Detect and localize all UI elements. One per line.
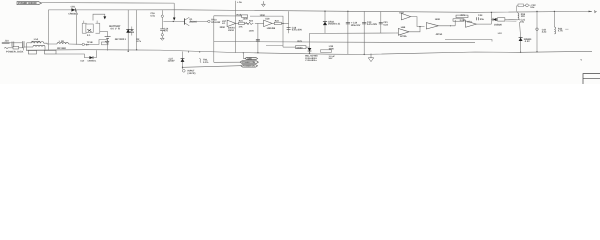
transformer T1 upper winding (27, 42, 31, 44)
wire vertical drop at x=174 (173, 3, 175, 18)
power jack switch box 2 (45, 50, 57, 54)
svg-text:U19: U19 (399, 12, 404, 15)
capacitor C20 branch x=364.2 (363, 11, 365, 54)
diode CR0003 (89, 56, 93, 59)
svg-text:0.22: 0.22 (383, 23, 388, 26)
diode CR3 body (hollow) (130, 29, 134, 32)
svg-text:POWER JACK: POWER JACK (6, 51, 24, 54)
svg-text:47K: 47K (239, 26, 243, 29)
wire jack lower line (8, 47, 13, 49)
diode CR1 on +BATT rail (71, 6, 76, 12)
svg-text:4274A: 4274A (436, 33, 443, 36)
net flag POWER CON (240, 61, 258, 64)
svg-text:287-0000: 287-0000 (57, 47, 67, 50)
diode CR20 (points left) on output row (493, 18, 497, 21)
resistor R31 2.2K (input) (453, 19, 464, 21)
svg-text:50V: 50V (329, 57, 333, 60)
wire to flag POWER CON (214, 61, 240, 63)
svg-text:1N5820: 1N5820 (494, 24, 503, 27)
svg-text:2.2K: 2.2K (460, 19, 465, 22)
inductor L1B coil (57, 43, 69, 44)
svg-text:LO: LO (222, 22, 225, 25)
lower winding to ground rail (26, 47, 45, 51)
wire Q1 base row (163, 20, 184, 22)
wire up to R31 (454, 20, 456, 26)
switch S1 body (86, 24, 93, 32)
svg-text:POWER CON: POWER CON (242, 61, 256, 64)
wire T1 to L1B (44, 42, 57, 45)
test point TP2 branch x=162.3 (161, 10, 163, 15)
junction dot output node (282, 23, 283, 24)
net flag (VR) (245, 57, 258, 59)
capacitor C14 plates (160, 28, 164, 30)
svg-text:287-0000 1: 287-0000 1 (115, 38, 127, 41)
junction dot CR18 top (324, 11, 325, 12)
wire diode up to rail (93, 50, 96, 57)
svg-text:10u: 10u (520, 21, 525, 24)
net flag POWER ON (241, 65, 258, 68)
capacitor C43 plates (476, 17, 478, 20)
resistor R25 box with value (296, 46, 307, 49)
svg-text:U6B: U6B (401, 26, 406, 29)
svg-text:POWER ON/OFF: POWER ON/OFF (18, 2, 37, 5)
diode CR21 body (519, 38, 523, 41)
resistor R23 (274, 22, 281, 24)
net flag POWER ON/OFF (top left banner) (17, 2, 42, 5)
wire from POWER ON/OFF flag to Q1 emitter drop (42, 2, 175, 5)
arrowhead into battery + (103, 16, 106, 19)
svg-text:POWER ON: POWER ON (243, 65, 255, 68)
svg-text:LM1458: LM1458 (267, 27, 276, 30)
svg-text:100: 100 (521, 15, 526, 18)
junction dot C20 bottom (364, 54, 365, 55)
chassis ground arrow (106, 40, 108, 42)
terminal circle (536, 28, 539, 31)
svg-text:0.5u: 0.5u (150, 14, 155, 17)
+5V supply drop x=235.6 (235, 1, 237, 53)
svg-text:4.7K: 4.7K (558, 30, 563, 33)
battery B1 bottom lead to ground (107, 38, 109, 50)
mid rail y=33.3 (310, 32, 396, 34)
switch S1 output wire to battery (100, 30, 108, 32)
amp box left vertical / input drop x=213.8 (213, 16, 215, 63)
battery clip box (102, 42, 109, 45)
capacitor C15 branch x=136.6 (136, 10, 138, 50)
wire R22 to U18 (255, 22, 264, 24)
wire switch to EXT drop (56, 54, 89, 58)
resistor R21 (239, 22, 245, 24)
wire jack upper line (10, 42, 22, 44)
op-amp U19 (upper) (401, 13, 410, 20)
wire choke down through diode to ground (520, 22, 521, 52)
svg-text:1N4148 x 21: 1N4148 x 21 (328, 23, 341, 26)
wire U17 out (236, 22, 239, 24)
inductor L2 box label (321, 50, 332, 53)
svg-text:0000: 0000 (329, 47, 335, 50)
svg-text:RA8: RA8 (237, 14, 242, 17)
svg-text:U5A: U5A (467, 20, 472, 23)
svg-text:A 3V: A 3V (525, 40, 531, 43)
wire TP1 to ground hook (85, 40, 108, 45)
capacitor C19 plates (346, 21, 350, 23)
choke L4 vertical coil x=517.8 (517, 12, 519, 14)
svg-text:120K: 120K (260, 14, 266, 17)
svg-text:ON-LOW: ON-LOW (211, 21, 221, 24)
switch S1 contact marks (87, 29, 91, 32)
test point TP1 circle (82, 43, 84, 45)
inductor L3 box (498, 18, 505, 21)
wire vertical from rail to input line (x=76.5) (76, 10, 78, 45)
resistor RA8 (feedback) (241, 15, 247, 17)
wire U21 out (439, 25, 456, 27)
junction dot flag1 riser (243, 52, 244, 53)
resistor R22 (245, 22, 253, 25)
capacitor C21b branch x=380.8 (380, 12, 382, 34)
wire R21-R22 (244, 22, 248, 24)
wire U20 out to node (409, 27, 420, 32)
svg-text:120K: 120K (243, 17, 249, 20)
junction dot CR3/ground (136, 49, 137, 50)
capacitor C19 branch x=347.9 (347, 11, 349, 54)
wire node to L3 (491, 19, 493, 21)
power jack AC sine symbol (4, 47, 8, 48)
svg-text:(JACK): (JACK) (188, 72, 196, 75)
svg-text:CR0001 1: CR0001 1 (68, 13, 78, 16)
ground rail (long bottom bus) (26, 50, 592, 55)
switch S1 leads up (83, 21, 85, 24)
capacitor C22 circle (526, 4, 529, 7)
svg-text:TP1B: TP1B (87, 41, 93, 44)
transformer T1 lower winding (24, 46, 33, 48)
junction vertical x=491.4 (490, 12, 492, 24)
vertical 283 down to R network (282, 26, 284, 47)
svg-text:(VR): (VR) (247, 57, 252, 60)
small mark x=566 (565, 28, 568, 30)
svg-text:R25: R25 (297, 40, 302, 43)
bracket and TML label (199, 58, 201, 63)
power jack switch box 1 (28, 50, 36, 54)
junction dot (309, 53, 310, 54)
capacitor C13 plates (256, 38, 260, 40)
junction dot bottom (536, 51, 537, 52)
diode CR22 body (181, 59, 185, 62)
svg-text:0.47u 50V: 0.47u 50V (367, 23, 378, 26)
diode CR2 body (126, 29, 130, 33)
wire U19 out, down to node (411, 17, 425, 27)
svg-text:C VALUES u: C VALUES u (305, 59, 317, 62)
wire U22 out to node x=491.4 (476, 23, 491, 25)
wire step into battery + terminal (93, 14, 105, 20)
stub ticks under ground rail (187, 51, 189, 53)
chassis ground (center bottom) (370, 54, 372, 58)
wire left vertical from rail down to power-jack switch (47, 10, 49, 51)
wire U18 out (272, 22, 274, 24)
wire L3 to choke (505, 19, 518, 21)
svg-text:CR1: CR1 (71, 6, 76, 9)
battery B1 top lead (107, 31, 109, 36)
junction dot C13/ground (257, 52, 258, 53)
wire riser to flag1 (243, 53, 245, 59)
wire R31 to U22 input (464, 20, 466, 23)
test point TP10 circle (208, 20, 210, 22)
diode CR17 on branch (308, 48, 312, 51)
wire mid rail into U20 (396, 32, 399, 34)
switch S1 left bracket (82, 23, 86, 33)
svg-text:C43: C43 (478, 14, 483, 17)
inductor L5 vertical coil x=554.4 (553, 11, 555, 27)
op-amp U17 (227, 20, 236, 27)
junction dot base wire (173, 21, 174, 22)
junction dot CR21/ground (520, 52, 521, 53)
junction dot flag wire (182, 67, 183, 68)
branch x=257.9 with C13 to ground (257, 23, 259, 52)
chassis ground arrow under TP2 (161, 36, 163, 38)
capacitor C18 branch x=288.6 (288, 11, 290, 33)
svg-text:50u: 50u (480, 18, 485, 21)
op-amp U21 (426, 23, 438, 29)
op-amp U18 (264, 20, 273, 27)
transistor Q1 collector (185, 17, 190, 20)
svg-text:CR0003 1: CR0003 1 (88, 59, 98, 62)
junction dot L5 top (554, 11, 555, 12)
input jack terminal circle (182, 69, 185, 72)
svg-text:R70: R70 (461, 14, 466, 17)
fuse F1 box (13, 46, 19, 49)
svg-text:1608: 1608 (435, 18, 441, 21)
wires to R25 (283, 46, 296, 48)
input jack branch x=182.5 (182, 52, 184, 70)
diode CR18 branch x=325 (324, 11, 326, 33)
transistor Q1 bar (184, 18, 186, 24)
junction dot top (536, 11, 537, 12)
power arrow symbol (down) (262, 1, 264, 4)
svg-text:100K: 100K (249, 29, 255, 32)
svg-text:2N3904: 2N3904 (189, 20, 197, 23)
short rail segment to output hook (445, 40, 492, 42)
junction dot CR2/ground (128, 51, 129, 52)
svg-text:470: 470 (164, 30, 169, 33)
test point TP2 circle (161, 15, 163, 17)
svg-text:10000: 10000 (296, 46, 303, 49)
rail end tick (595, 10, 597, 13)
wire Q1 to TP10 (190, 20, 208, 22)
node drop to lower rail (23, 48, 25, 51)
svg-text:2.2u: 2.2u (542, 31, 547, 34)
output terminal branch x=537 (536, 11, 538, 51)
wire L1B to TP1 (69, 43, 82, 45)
mid rail y=41.7 (amp box bottom) (214, 42, 475, 43)
title block (bottom right corner) (583, 74, 600, 84)
svg-text:0.1%: 0.1% (203, 61, 209, 64)
diode CR18 body (323, 22, 327, 25)
main +BATT rail (top horizontal) (48, 10, 592, 13)
short rail y=45.3 (266, 44, 283, 46)
resistor R30 (feedback) (456, 15, 468, 18)
svg-text:10u: 10u (530, 6, 535, 9)
rail end arrow (off-page, right) (589, 11, 593, 13)
capacitor C20 plates (362, 21, 366, 23)
battery B1 cell plates (105, 36, 111, 38)
feedback loop wire (amp box top) (250, 16, 283, 26)
wire C14 to ground circle (161, 31, 163, 34)
jack pin bars (11, 42, 13, 47)
capacitor C18 plates (287, 27, 291, 29)
svg-text:220K: 220K (220, 26, 226, 29)
svg-text:44 V R: 44 V R (110, 27, 120, 30)
wire to flag POWER ON (183, 66, 241, 68)
wire fuse to cap node (19, 47, 24, 49)
diode CR3 vertical branch x=131.8 (131, 27, 133, 36)
capacitor C1 plates (21, 41, 23, 47)
junction dots C19 (347, 11, 348, 12)
wire TP2 down to C14 (161, 17, 163, 28)
capacitor C22 loop (top right) (517, 5, 519, 12)
wire R23 to node (281, 22, 288, 24)
svg-text:100u 10V: 100u 10V (351, 24, 361, 27)
svg-text:4.7u: 4.7u (136, 40, 141, 43)
svg-text:U18: U18 (265, 18, 270, 21)
arrowhead into Q1 emitter (173, 18, 176, 21)
svg-text:4274A: 4274A (400, 35, 407, 38)
ground terminal circle (161, 34, 163, 36)
svg-text:0.47u 50V: 0.47u 50V (292, 29, 303, 32)
junction dot on rail (491, 12, 492, 13)
junction dot node (419, 26, 420, 27)
op-amp U20 (lower) (398, 29, 409, 36)
junction ticks (450, 25, 451, 26)
power jack J1A pins (2, 41, 10, 43)
svg-text:+ 5v: + 5v (237, 1, 242, 4)
op-amp U22 (466, 21, 477, 27)
svg-text:LM10: LM10 (228, 29, 235, 32)
transistor Q1 emitter (185, 23, 190, 26)
svg-text:1u/50V: 1u/50V (168, 60, 175, 63)
diode CR2 vertical branch x=128 (127, 10, 129, 51)
switch S1 right bracket (96, 23, 100, 33)
branch x=309.5 mid rail to ground (309, 33, 311, 53)
